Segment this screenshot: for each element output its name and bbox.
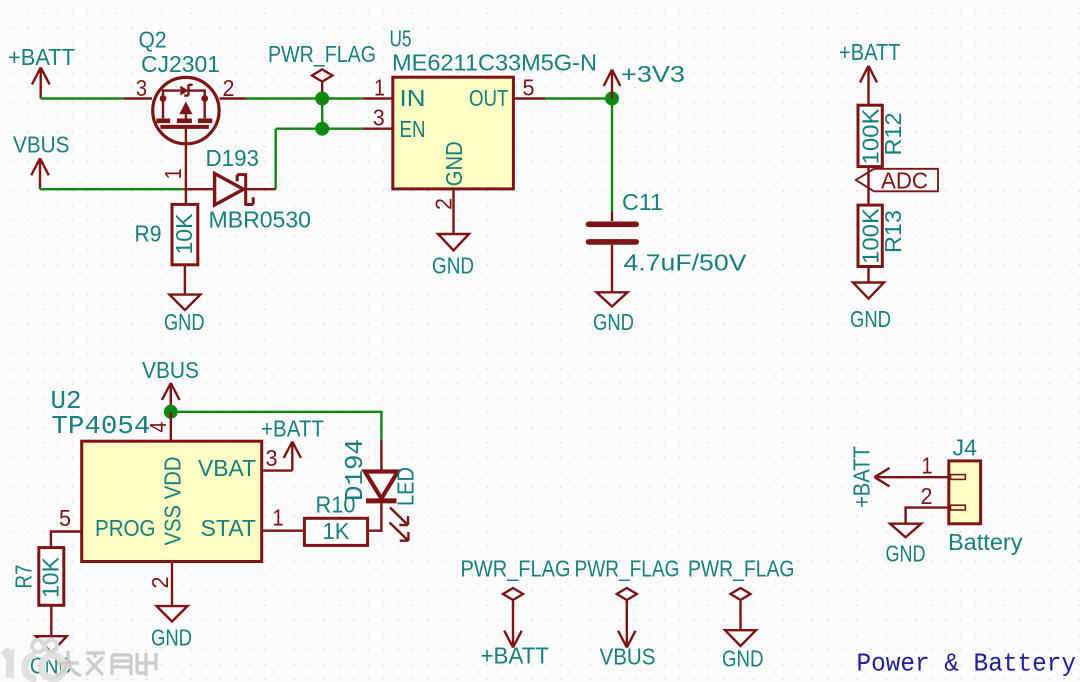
wire D193 cathode to U5 pin3 EN	[276, 129, 363, 190]
svg-text:3: 3	[373, 105, 385, 131]
wire VBUS junction to LED D194	[171, 412, 382, 440]
svg-text:1: 1	[374, 75, 385, 101]
svg-text:VBAT: VBAT	[198, 455, 256, 481]
svg-text:4.7uF/50V: 4.7uF/50V	[624, 250, 748, 276]
transistor Q2 internals	[156, 85, 212, 127]
resistor R13 body	[858, 205, 882, 266]
svg-text:+BATT: +BATT	[849, 446, 875, 508]
svg-text:R12: R12	[880, 113, 906, 156]
U2 pin 3 stub	[262, 469, 293, 471]
watermark logo	[3, 640, 156, 679]
junction dot at IN wire	[315, 92, 329, 106]
PWR_FLAG symbol top	[312, 69, 332, 98]
pin 2 stub of Q2	[220, 97, 246, 99]
ground symbol below R7	[36, 636, 67, 653]
power symbol VBUS left	[31, 158, 49, 189]
svg-text:J4: J4	[953, 435, 978, 461]
svg-text:+BATT: +BATT	[481, 643, 550, 669]
svg-text:+BATT: +BATT	[8, 44, 75, 70]
wire R10 to LED D194	[368, 501, 382, 531]
power symbol +BATT at J4 (arrow left)	[875, 468, 890, 486]
svg-text:5: 5	[59, 505, 71, 531]
svg-text:1: 1	[922, 453, 933, 479]
svg-text:TP4054: TP4054	[51, 411, 150, 441]
svg-text:OUT: OUT	[469, 85, 509, 111]
PWR_FLAG symbol bottom 2	[617, 588, 637, 648]
ground symbol below R13	[853, 283, 884, 299]
diode D193 cathode stub	[247, 188, 276, 190]
svg-text:Q2: Q2	[139, 27, 167, 53]
wire R9 to GND	[184, 265, 186, 295]
svg-text:D193: D193	[206, 145, 260, 171]
wire J4 pin1 to +BATT	[875, 476, 949, 478]
svg-text:LED: LED	[393, 467, 419, 506]
wire R7 to GND	[50, 605, 52, 636]
svg-text:GND: GND	[722, 646, 764, 672]
U2 pin 5 wire to R7	[51, 532, 82, 548]
svg-text:10K: 10K	[171, 213, 197, 255]
svg-text:1K: 1K	[323, 518, 351, 544]
wire Q2 pin2 to junction	[246, 97, 323, 99]
svg-text:10K: 10K	[38, 556, 64, 598]
J4 pin 2 graphic	[951, 505, 966, 510]
resistor R7 body	[39, 548, 64, 606]
wire R12 to R13	[867, 167, 869, 206]
svg-text:U5: U5	[390, 26, 412, 52]
power symbol +BATT top-left	[32, 67, 50, 98]
capacitor C11 top stub	[611, 212, 613, 221]
J4 pin 1 graphic	[951, 475, 966, 480]
resistor R10 body	[304, 518, 367, 545]
svg-text:1: 1	[160, 168, 186, 179]
capacitor C11 plates	[589, 224, 637, 242]
ground symbol below C11	[597, 292, 628, 306]
svg-text:3: 3	[266, 445, 278, 471]
svg-text:GND: GND	[432, 253, 474, 279]
wire VBUS to D193 anode	[40, 188, 184, 190]
power symbol +3V3	[604, 70, 621, 99]
svg-text:GND: GND	[886, 541, 926, 567]
svg-text:Power & Battery: Power & Battery	[857, 649, 1077, 679]
svg-text:3: 3	[136, 75, 147, 101]
U2 pin 4 stub	[170, 412, 172, 441]
ground symbol at J4	[890, 524, 921, 538]
junction dot at U2 VDD	[164, 405, 178, 419]
svg-text:R13: R13	[880, 210, 906, 253]
svg-text:+3V3: +3V3	[621, 61, 685, 87]
diode D193 anode stub	[184, 188, 215, 190]
svg-text:EN: EN	[400, 116, 426, 142]
wire R13 to GND	[867, 267, 869, 283]
svg-text:GND: GND	[850, 306, 891, 332]
pin 3 stub of Q2	[124, 97, 152, 99]
LED D194 body	[365, 440, 398, 501]
svg-text:IN: IN	[400, 85, 426, 111]
svg-text:D194: D194	[340, 439, 370, 501]
power symbol +BATT right	[860, 66, 877, 105]
svg-text:VBUS: VBUS	[600, 644, 656, 670]
diode D193 body	[215, 173, 254, 206]
svg-text:GND: GND	[164, 309, 205, 335]
svg-text:R7: R7	[11, 565, 37, 589]
PWR_FLAG symbol bottom 3	[731, 588, 751, 630]
svg-text:CJ2301: CJ2301	[141, 51, 220, 77]
U2 pin 1 stub	[262, 530, 305, 532]
svg-text:PWR_FLAG: PWR_FLAG	[461, 556, 571, 582]
svg-text:2: 2	[431, 198, 457, 210]
LED D194 arrows	[390, 508, 409, 541]
svg-text:ME6211C33M5G-N: ME6211C33M5G-N	[392, 50, 597, 76]
power symbol +BATT at U2 pin3	[284, 442, 301, 471]
svg-text:VBUS: VBUS	[142, 357, 199, 383]
svg-text:STAT: STAT	[201, 515, 257, 541]
U5 pin 3 stub	[363, 127, 393, 129]
U5 pin 5 stub	[513, 97, 545, 99]
ground symbol below U5	[438, 234, 469, 250]
svg-text:PWR_FLAG: PWR_FLAG	[575, 556, 680, 582]
svg-text:GND: GND	[441, 141, 467, 186]
junction dot at +3V3	[605, 92, 619, 106]
regulator U5 body	[393, 77, 514, 189]
wire Q2 gate to R9	[185, 127, 187, 205]
wire U5 OUT to junction	[545, 97, 612, 99]
U5 pin 2 stub	[452, 189, 454, 234]
svg-text:VSS VDD: VSS VDD	[160, 457, 186, 546]
U2 pin 2 stub	[171, 562, 173, 607]
svg-text:2: 2	[921, 483, 933, 509]
svg-text:+BATT: +BATT	[839, 39, 901, 65]
svg-text:VBUS: VBUS	[13, 132, 70, 158]
svg-text:GND: GND	[593, 309, 634, 335]
svg-text:5: 5	[523, 75, 535, 101]
svg-text:C11: C11	[622, 189, 663, 215]
svg-text:+BATT: +BATT	[261, 416, 324, 442]
svg-text:ADC: ADC	[881, 168, 928, 194]
wire junction to C11	[611, 99, 613, 213]
svg-text:2: 2	[223, 75, 235, 101]
ground symbol bottom PWR_FLAG	[725, 630, 756, 646]
svg-text:MBR0530: MBR0530	[209, 207, 312, 233]
capacitor C11 bottom stub	[611, 245, 613, 293]
wire junction to junction EN	[321, 99, 323, 129]
svg-text:Battery: Battery	[948, 529, 1023, 555]
wire +BATT to Q2 pin3	[41, 97, 124, 99]
ground symbol below U2	[157, 606, 188, 621]
global label ADC	[856, 168, 938, 194]
U5 pin 1 stub	[363, 97, 393, 99]
power symbol VBUS above U2	[162, 383, 180, 412]
wire J4 pin2 to GND	[906, 508, 949, 524]
wire junction to U5 pin1	[322, 97, 363, 99]
ground symbol below R9	[169, 295, 200, 310]
junction dot at EN wire	[315, 122, 329, 136]
svg-text:1: 1	[273, 505, 284, 531]
transistor Q2 body circle	[153, 77, 219, 143]
svg-text:PROG: PROG	[95, 515, 156, 541]
svg-text:R9: R9	[135, 221, 162, 247]
chip U2 body	[82, 441, 262, 561]
resistor R9 body	[172, 204, 198, 264]
svg-text:GND: GND	[151, 625, 192, 651]
resistor R12 body	[858, 105, 882, 166]
svg-text:2: 2	[147, 577, 173, 589]
connector J4 body	[949, 461, 981, 524]
PWR_FLAG symbol bottom 1	[503, 588, 523, 648]
svg-text:PWR_FLAG: PWR_FLAG	[688, 556, 795, 582]
svg-text:PWR_FLAG: PWR_FLAG	[268, 41, 376, 67]
